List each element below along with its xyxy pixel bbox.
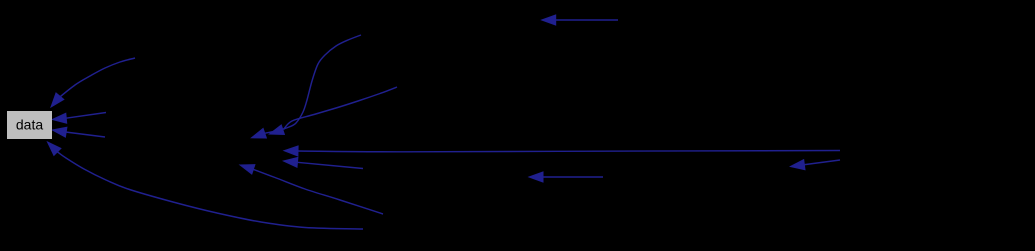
svg-text:data: data — [16, 117, 43, 133]
